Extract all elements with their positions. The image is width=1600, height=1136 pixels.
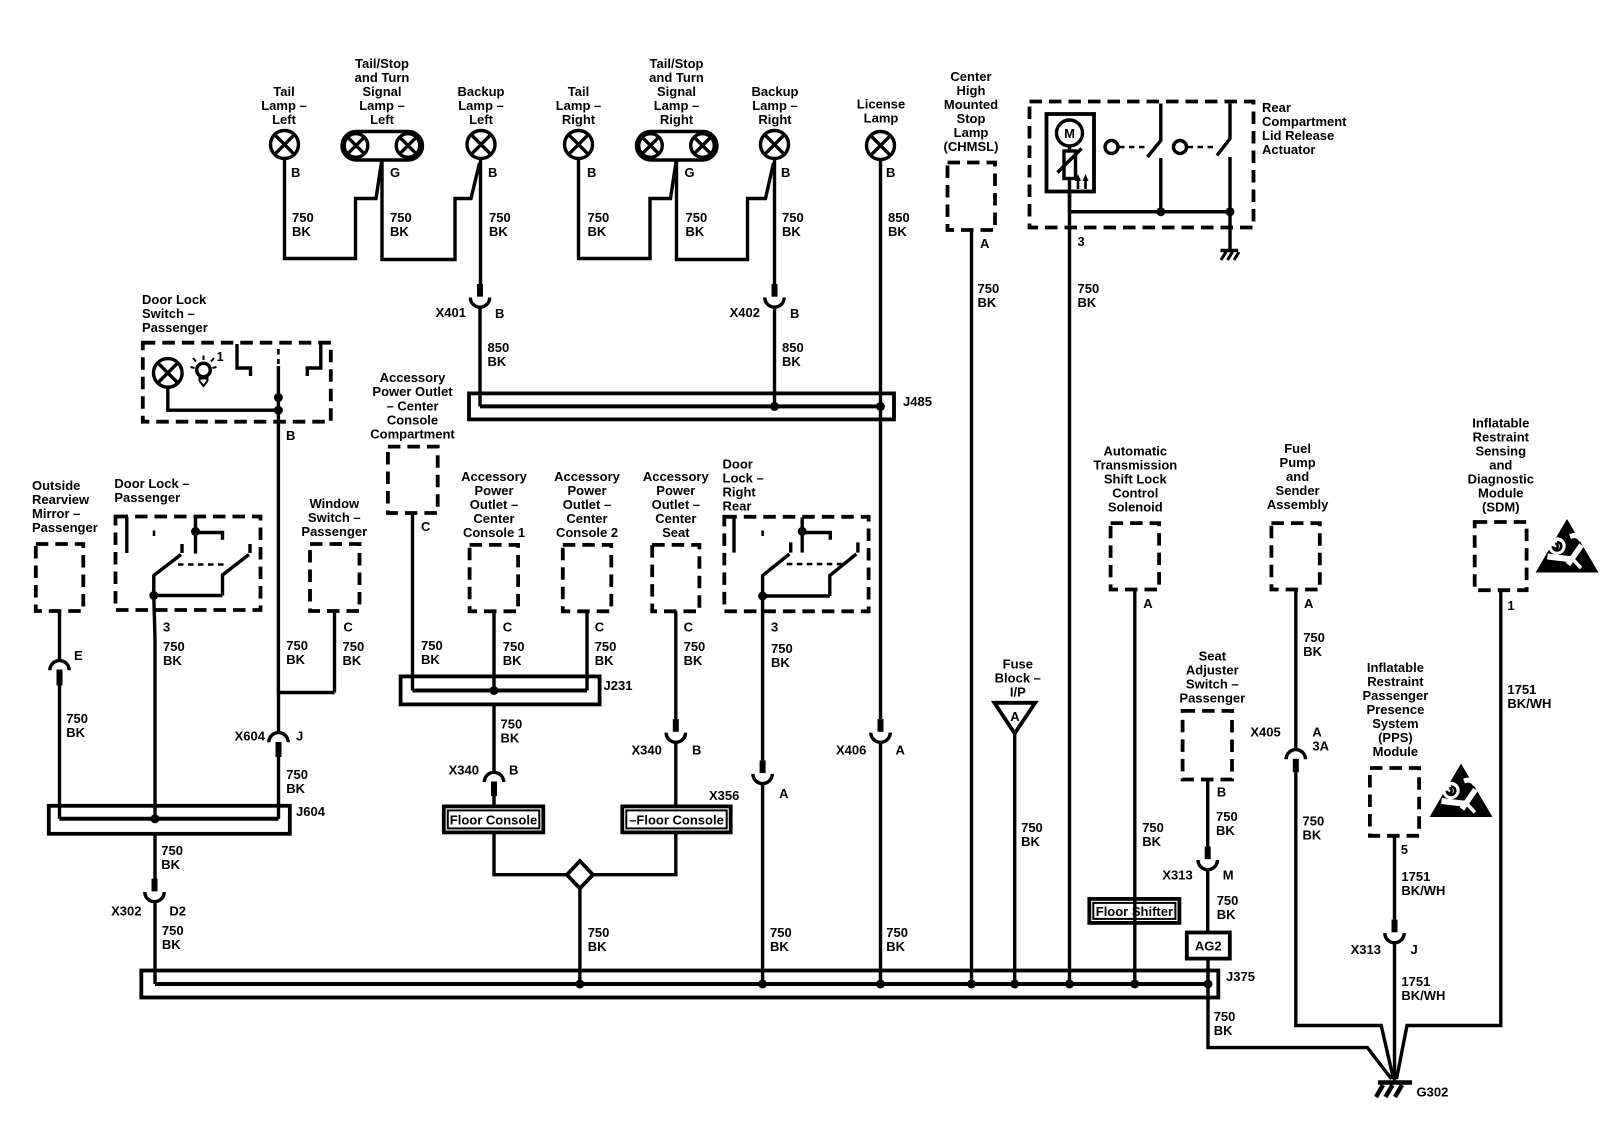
svg-text:850: 850 xyxy=(888,210,910,225)
svg-text:Passenger: Passenger xyxy=(32,520,98,535)
svg-text:B: B xyxy=(1217,785,1226,800)
svg-text:750: 750 xyxy=(421,638,443,653)
svg-text:BK: BK xyxy=(588,939,607,954)
svg-text:Pump: Pump xyxy=(1280,455,1316,470)
svg-text:X401: X401 xyxy=(436,305,466,320)
wire 750 BK CHMSL to J375 xyxy=(970,230,973,984)
component AG2 box xyxy=(1187,933,1230,959)
motor assembly inner box xyxy=(1047,114,1095,192)
svg-text:Power: Power xyxy=(567,483,606,498)
svg-text:B: B xyxy=(790,306,799,321)
svg-text:Signal: Signal xyxy=(362,84,401,99)
svg-text:AG2: AG2 xyxy=(1195,939,1222,954)
pin J X604 xyxy=(296,729,303,744)
svg-text:Block –: Block – xyxy=(995,671,1041,686)
svg-text:750: 750 xyxy=(1303,630,1325,645)
label 750 BK fuel pump xyxy=(1303,630,1325,659)
pin C compartment outlet xyxy=(421,519,431,534)
svg-text:Door Lock –: Door Lock – xyxy=(114,476,189,491)
svg-text:Seat: Seat xyxy=(662,525,690,540)
svg-text:Passenger: Passenger xyxy=(142,320,208,335)
svg-text:X313: X313 xyxy=(1351,942,1381,957)
wire 750 BK X356 to J375 xyxy=(761,784,764,985)
svg-text:Fuse: Fuse xyxy=(1003,657,1033,672)
terminal stub left RR xyxy=(732,517,735,552)
svg-text:A: A xyxy=(1304,596,1314,611)
label 750 BK below X302 xyxy=(162,923,184,952)
connector X356 xyxy=(753,760,772,783)
wire backup lamp right 750 BK to X402 xyxy=(773,159,776,285)
switch contact circle 2 xyxy=(1174,141,1187,154)
connector E mirror xyxy=(50,661,69,686)
pin G tail/stop right xyxy=(685,165,695,180)
svg-text:E: E xyxy=(74,648,83,663)
component accessory power outlet center console 2 box xyxy=(563,545,612,611)
svg-text:Right: Right xyxy=(562,112,596,127)
label 750 BK fuse block xyxy=(1021,820,1043,849)
connector X405 xyxy=(1286,750,1305,773)
wire -floor console to diamond xyxy=(593,832,676,874)
svg-text:Right: Right xyxy=(758,112,792,127)
svg-text:BK: BK xyxy=(1142,834,1161,849)
svg-text:X402: X402 xyxy=(730,305,760,320)
svg-text:C: C xyxy=(343,620,353,635)
pin B backup lamp right xyxy=(781,165,790,180)
pin B X340 right xyxy=(692,743,701,758)
svg-text:G: G xyxy=(685,165,695,180)
junction console1 wire on J231 xyxy=(490,686,499,695)
svg-text:B: B xyxy=(488,165,497,180)
svg-text:750: 750 xyxy=(588,210,610,225)
accessory power outlet center console compartment label xyxy=(370,370,455,442)
svg-text:750: 750 xyxy=(1217,893,1239,908)
svg-text:BK: BK xyxy=(770,939,789,954)
label X405 xyxy=(1250,725,1280,740)
svg-text:BK/WH: BK/WH xyxy=(1401,988,1445,1003)
pin A fuel pump xyxy=(1304,596,1314,611)
svg-text:G: G xyxy=(390,165,400,180)
junction actuator wire on J375 xyxy=(1065,980,1074,989)
svg-text:Outlet –: Outlet – xyxy=(563,497,611,512)
lamp E1 Tail Lamp Left xyxy=(271,131,299,159)
svg-text:and Turn: and Turn xyxy=(649,70,704,85)
label 750 BK X356 xyxy=(770,925,792,954)
label floor shifter xyxy=(1096,904,1173,919)
svg-text:BK: BK xyxy=(421,652,440,667)
label 750 BK console 2 xyxy=(595,639,617,668)
component CHMSL box xyxy=(948,163,996,231)
svg-text:Module: Module xyxy=(1478,486,1524,501)
svg-text:750: 750 xyxy=(1142,820,1164,835)
dashed linkage door lock switch xyxy=(277,349,280,364)
component -floor console box xyxy=(622,806,730,832)
junction dot lower xyxy=(274,406,283,415)
wire 750 BK X405 to ground xyxy=(1296,772,1394,1079)
svg-text:Passenger: Passenger xyxy=(1179,691,1245,706)
svg-text:Sensing: Sensing xyxy=(1476,444,1527,459)
svg-text:750: 750 xyxy=(588,925,610,940)
dashed actuation link 2 xyxy=(1188,146,1217,149)
svg-text:BK: BK xyxy=(162,937,181,952)
arrows up xyxy=(1075,174,1089,189)
svg-text:Actuator: Actuator xyxy=(1262,142,1315,157)
wire tail lamp right 750 BK xyxy=(579,159,677,259)
pin 5 PPS xyxy=(1401,842,1408,857)
component door lock passenger box xyxy=(116,517,261,611)
svg-text:J375: J375 xyxy=(1226,969,1255,984)
pin B tail lamp right xyxy=(587,165,596,180)
svg-text:Lamp –: Lamp – xyxy=(654,98,700,113)
splice bus J485 box xyxy=(469,393,894,419)
svg-text:Stop: Stop xyxy=(957,111,986,126)
component fuel pump box xyxy=(1271,523,1319,589)
dashed linkage horizontal RR xyxy=(787,563,843,566)
door lock right rear label xyxy=(723,457,764,514)
svg-text:Shift Lock: Shift Lock xyxy=(1104,472,1168,487)
svg-text:BK: BK xyxy=(888,224,907,239)
switch contact circle 1 xyxy=(1105,141,1118,154)
svg-text:Compartment: Compartment xyxy=(1262,114,1347,129)
svg-text:Left: Left xyxy=(272,112,297,127)
label 750 BK tail right xyxy=(588,210,610,239)
svg-text:BK: BK xyxy=(886,939,905,954)
label 750 BK X604 xyxy=(286,767,308,796)
svg-text:BK/WH: BK/WH xyxy=(1401,883,1445,898)
wire 750 BK diamond to J375 xyxy=(578,888,581,984)
svg-text:X604: X604 xyxy=(235,729,266,744)
pin B backup lamp left xyxy=(488,165,497,180)
svg-text:J485: J485 xyxy=(903,394,932,409)
svg-text:Power Outlet: Power Outlet xyxy=(372,384,453,399)
svg-text:Outlet –: Outlet – xyxy=(652,497,700,512)
svg-text:Center: Center xyxy=(655,511,696,526)
label AG2 xyxy=(1195,939,1222,954)
dashed linkage dash RR xyxy=(761,531,764,541)
svg-text:J231: J231 xyxy=(604,678,633,693)
pin 3 door lock right rear xyxy=(771,620,778,635)
svg-text:and Turn: and Turn xyxy=(355,70,410,85)
wire actuator internal bus xyxy=(1070,179,1231,212)
switch blade left door lock passenger xyxy=(154,544,182,596)
wire 750 BK X406 to J375 xyxy=(879,742,882,984)
CHMSL label xyxy=(944,69,999,154)
svg-text:Door: Door xyxy=(723,457,753,472)
wire lamp to common xyxy=(168,387,279,410)
pin B X401 xyxy=(495,306,504,321)
connector X313 M xyxy=(1198,847,1217,870)
label X401 xyxy=(436,305,466,320)
svg-text:Mounted: Mounted xyxy=(944,97,998,112)
svg-text:Right: Right xyxy=(660,112,694,127)
ground rear compartment actuator xyxy=(1221,251,1240,261)
svg-text:750: 750 xyxy=(286,638,308,653)
automatic transmission shift lock control solenoid label xyxy=(1093,444,1177,515)
accessory power outlet center console 1 label xyxy=(461,469,528,540)
pin J X313 xyxy=(1411,942,1418,957)
wire AG2 to J375 xyxy=(1206,959,1209,998)
svg-text:Lid Release: Lid Release xyxy=(1262,128,1334,143)
svg-text:850: 850 xyxy=(488,340,510,355)
wire floor console to diamond xyxy=(494,832,567,874)
label 750 BK center seat xyxy=(684,639,706,668)
svg-text:D2: D2 xyxy=(169,904,186,919)
svg-text:Window: Window xyxy=(309,496,360,511)
junction AG2 wire on J375 xyxy=(1204,980,1213,989)
terminal stub left xyxy=(125,517,128,553)
backup lamp right label xyxy=(752,84,799,127)
svg-text:Passenger: Passenger xyxy=(114,490,180,505)
svg-text:BK: BK xyxy=(66,725,85,740)
junction shift lock wire on J375 xyxy=(1130,980,1139,989)
svg-text:BK: BK xyxy=(1078,295,1097,310)
svg-text:Floor Console: Floor Console xyxy=(450,813,537,828)
svg-text:Automatic: Automatic xyxy=(1104,444,1168,459)
svg-text:3: 3 xyxy=(771,620,778,635)
svg-text:A: A xyxy=(896,743,906,758)
svg-text:C: C xyxy=(684,620,694,635)
svg-text:B: B xyxy=(495,306,504,321)
connector X313 J xyxy=(1385,920,1404,943)
switch contact bracket left xyxy=(237,344,251,376)
splice diamond xyxy=(567,861,593,888)
junction diamond wire on J375 xyxy=(575,980,584,989)
junction switch2 to bus xyxy=(1226,207,1235,216)
svg-text:BK: BK xyxy=(1216,823,1235,838)
wire tail/stop right G 750 BK xyxy=(677,160,774,260)
component floor console box xyxy=(444,806,544,832)
svg-text:X302: X302 xyxy=(111,904,141,919)
svg-text:BK: BK xyxy=(503,653,522,668)
svg-text:Restraint: Restraint xyxy=(1367,674,1424,689)
svg-text:G302: G302 xyxy=(1417,1085,1449,1100)
wire J485 bus conductor xyxy=(480,404,881,408)
svg-text:Console 2: Console 2 xyxy=(556,525,618,540)
svg-text:Inflatable: Inflatable xyxy=(1367,660,1424,675)
svg-text:Outside: Outside xyxy=(32,478,80,493)
svg-text:Lamp: Lamp xyxy=(954,125,989,140)
pin B X340 left xyxy=(509,763,518,778)
wire 850 BK X402 to J485 xyxy=(773,307,776,406)
svg-text:J604: J604 xyxy=(296,804,326,819)
ground G302 xyxy=(1376,1083,1412,1098)
wire 750 BK console 2 to J231 xyxy=(585,611,588,690)
wire X340 to floor console xyxy=(492,796,495,806)
svg-text:Right: Right xyxy=(723,485,757,500)
svg-text:BK: BK xyxy=(161,857,180,872)
svg-text:750: 750 xyxy=(503,639,525,654)
svg-text:Center: Center xyxy=(473,511,514,526)
pin G tail/stop left xyxy=(390,165,400,180)
lamp E3 Backup Lamp Left xyxy=(467,131,495,159)
svg-text:Restraint: Restraint xyxy=(1473,430,1530,445)
junction switch1 to bus xyxy=(1156,207,1165,216)
svg-text:BK: BK xyxy=(286,652,305,667)
wire 750 BK console1 below J231 xyxy=(492,705,495,772)
svg-text:BK: BK xyxy=(489,224,508,239)
label 850 BK below X401 xyxy=(488,340,510,369)
svg-text:Switch –: Switch – xyxy=(142,306,195,321)
svg-text:J: J xyxy=(1411,942,1418,957)
label 750 BK X313M xyxy=(1217,893,1239,922)
pin E mirror xyxy=(74,648,83,663)
svg-text:Rearview: Rearview xyxy=(32,492,90,507)
accessory power outlet center seat label xyxy=(643,469,710,540)
connector X340 left xyxy=(484,772,503,796)
svg-text:750: 750 xyxy=(1303,814,1325,829)
svg-text:System: System xyxy=(1372,716,1418,731)
wire 750 BK X302 to J375 xyxy=(153,902,156,985)
svg-text:C: C xyxy=(503,620,513,635)
lamp E2 Tail/Stop and Turn Signal Lamp Left xyxy=(342,132,423,161)
label 750 BK below J375 xyxy=(1214,1009,1236,1038)
label 750 BK console 1 xyxy=(503,639,525,668)
label X313 M xyxy=(1162,868,1192,883)
wire tail lamp left 750 BK xyxy=(285,159,382,259)
pin C console 2 xyxy=(595,620,605,635)
svg-text:BK: BK xyxy=(588,224,607,239)
svg-text:Left: Left xyxy=(469,112,494,127)
svg-text:Backup: Backup xyxy=(458,84,505,99)
wire 750 BK center seat to X340 xyxy=(674,611,677,719)
svg-text:Solenoid: Solenoid xyxy=(1108,500,1163,515)
svg-text:X406: X406 xyxy=(836,743,866,758)
pin 3A X405 xyxy=(1312,739,1329,754)
svg-text:BK: BK xyxy=(771,655,790,670)
wire 850 BK license through J485 to X406 xyxy=(879,406,882,719)
svg-text:Power: Power xyxy=(656,483,695,498)
connector X401 xyxy=(470,284,489,307)
label X302 xyxy=(111,904,141,919)
svg-text:BK: BK xyxy=(782,224,801,239)
svg-text:B: B xyxy=(781,165,790,180)
wire actuator to ground xyxy=(1228,212,1231,250)
wire 750 BK fuse block to J375 xyxy=(1013,733,1016,984)
wire common door lock passenger xyxy=(149,591,222,600)
label 750 BK actuator xyxy=(1078,281,1100,310)
terminal stub center RR with junction xyxy=(798,518,831,553)
pin B tail lamp left xyxy=(291,165,300,180)
svg-text:Mirror –: Mirror – xyxy=(32,506,80,521)
svg-text:750: 750 xyxy=(686,210,708,225)
svg-text:Console: Console xyxy=(387,413,438,428)
pin A CHMSL xyxy=(980,236,990,251)
svg-text:M: M xyxy=(1064,126,1075,141)
label -floor console xyxy=(629,813,724,828)
wire mirror to E connector xyxy=(58,611,61,659)
svg-text:B: B xyxy=(886,165,895,180)
PPS label xyxy=(1363,660,1429,759)
svg-text:BK: BK xyxy=(782,354,801,369)
switch blade right door lock passenger xyxy=(223,544,251,596)
svg-text:Inflatable: Inflatable xyxy=(1472,416,1529,431)
svg-text:750: 750 xyxy=(163,639,185,654)
svg-text:1: 1 xyxy=(217,349,224,364)
svg-text:750: 750 xyxy=(343,639,365,654)
label 1751 BK/WH below X313J xyxy=(1401,974,1445,1003)
svg-text:Rear: Rear xyxy=(723,499,752,514)
lamp door lock switch xyxy=(154,359,183,388)
svg-text:750: 750 xyxy=(1216,809,1238,824)
svg-text:Accessory: Accessory xyxy=(461,469,528,484)
switch 2 xyxy=(1217,104,1230,212)
svg-text:Lamp –: Lamp – xyxy=(752,98,798,113)
svg-text:License: License xyxy=(857,97,905,112)
junction X402 wire on J485 xyxy=(770,402,779,411)
switch contact bracket right xyxy=(307,344,321,376)
svg-text:J: J xyxy=(296,729,303,744)
svg-text:BK: BK xyxy=(343,653,362,668)
svg-text:5: 5 xyxy=(1401,842,1408,857)
wire tail/stop left G 750 BK xyxy=(382,160,480,260)
svg-text:Center: Center xyxy=(566,511,607,526)
connector X402 xyxy=(765,284,784,307)
svg-text:and: and xyxy=(1489,458,1512,473)
pin B X402 xyxy=(790,306,799,321)
pin 3 door lock passenger xyxy=(163,620,170,635)
label 750 BK window switch xyxy=(343,639,365,668)
svg-text:Module: Module xyxy=(1373,744,1419,759)
wire 750 BK door lock switch down xyxy=(277,422,280,693)
svg-text:(SDM): (SDM) xyxy=(1482,500,1520,515)
svg-text:1751: 1751 xyxy=(1401,974,1430,989)
svg-text:Sender: Sender xyxy=(1276,483,1320,498)
svg-text:Switch –: Switch – xyxy=(308,510,361,525)
connector X340 right xyxy=(666,719,685,742)
svg-text:Rear: Rear xyxy=(1262,100,1291,115)
junction dot upper xyxy=(274,393,283,402)
svg-text:750: 750 xyxy=(1078,281,1100,296)
dashed linkage horizontal xyxy=(178,563,226,566)
svg-text:BK: BK xyxy=(684,653,703,668)
svg-text:Control: Control xyxy=(1112,486,1158,501)
label X402 xyxy=(730,305,760,320)
label 750 BK tail left xyxy=(292,210,314,239)
lamp E7 License Lamp xyxy=(867,132,895,160)
label 750 BK door lock switch xyxy=(286,638,308,667)
svg-text:A: A xyxy=(1010,709,1020,724)
svg-text:High: High xyxy=(957,83,986,98)
switch blade right RR xyxy=(830,542,858,596)
svg-text:B: B xyxy=(509,763,518,778)
wire 750 BK J604 to X302 xyxy=(153,834,156,879)
wire 750 BK door lock passenger to J604 xyxy=(154,596,155,819)
label 750 BK below J231 xyxy=(501,717,523,746)
svg-text:BK: BK xyxy=(978,295,997,310)
svg-text:X356: X356 xyxy=(709,788,739,803)
svg-text:Left: Left xyxy=(370,112,395,127)
svg-text:Seat: Seat xyxy=(1199,649,1227,664)
switch blade left RR xyxy=(763,542,791,596)
svg-text:750: 750 xyxy=(162,923,184,938)
svg-text:A: A xyxy=(1143,596,1153,611)
component accessory power outlet center console 1 box xyxy=(470,545,518,611)
label 750 BK right rear xyxy=(771,641,793,670)
label 750 BK mirror xyxy=(66,711,88,740)
svg-text:750: 750 xyxy=(782,210,804,225)
svg-text:BK: BK xyxy=(686,224,705,239)
switch 1 xyxy=(1148,104,1161,212)
svg-text:3: 3 xyxy=(1078,234,1085,249)
label 750 BK compartment outlet xyxy=(421,638,443,667)
svg-text:X313: X313 xyxy=(1162,868,1192,883)
tail lamp right label xyxy=(556,84,602,127)
wire license lamp 850 BK xyxy=(879,160,882,407)
svg-text:Lamp –: Lamp – xyxy=(261,98,307,113)
svg-text:BK: BK xyxy=(1021,834,1040,849)
pin M X313 xyxy=(1223,868,1234,883)
svg-text:and: and xyxy=(1286,469,1309,484)
svg-text:– Center: – Center xyxy=(386,399,438,414)
